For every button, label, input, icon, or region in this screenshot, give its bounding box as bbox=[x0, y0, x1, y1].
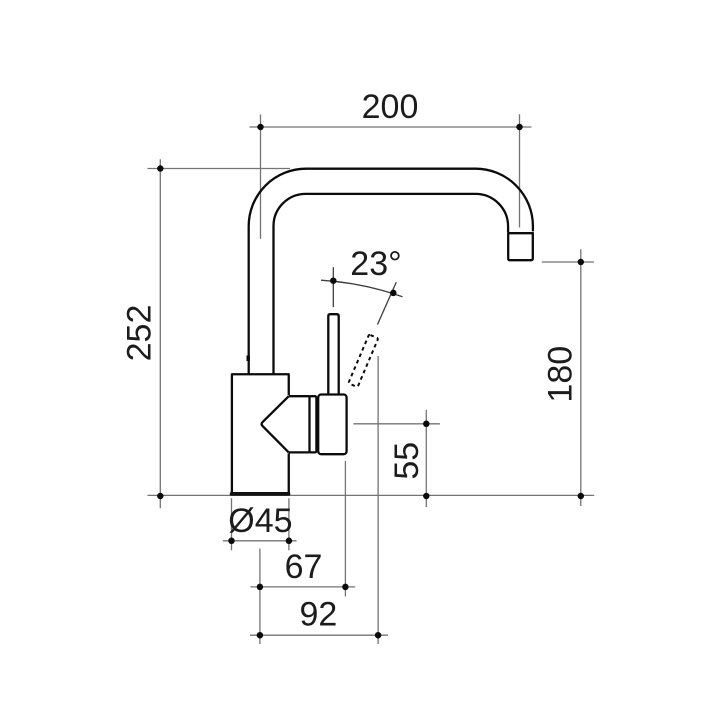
svg-text:180: 180 bbox=[542, 346, 580, 403]
wire: 92 right extension vertical bbox=[377, 356, 379, 644]
node: dia45 left bbox=[228, 538, 235, 545]
wire: 23 degree arc bbox=[321, 280, 403, 297]
node: dia45 right bbox=[286, 538, 293, 545]
wire: 200 left extension vertical bbox=[260, 114, 262, 238]
riser detail mark bbox=[246, 356, 249, 362]
wire: 200 dim line bbox=[249, 126, 531, 128]
svg-text:23°: 23° bbox=[350, 245, 401, 283]
spout inner profile bbox=[274, 194, 509, 374]
wire: baseline extension horizontal bbox=[148, 494, 595, 496]
wire: dia45 dim line bbox=[223, 540, 297, 542]
svg-text:252: 252 bbox=[120, 305, 158, 362]
node: angle vertex right bbox=[390, 290, 397, 297]
handle hub bbox=[318, 395, 346, 455]
handle stick bbox=[328, 314, 338, 394]
wire: dia45 right extension vertical bbox=[288, 498, 290, 550]
node: 252 top bbox=[157, 165, 164, 172]
wire: 180 top extension horizontal bbox=[542, 261, 594, 263]
faucet outline bbox=[232, 169, 534, 493]
wire: 200 right extension vertical bbox=[519, 114, 521, 227]
node: 55 top bbox=[423, 421, 430, 428]
wire: 252 dim line vertical bbox=[159, 159, 161, 508]
wire: 67 dim line bbox=[250, 586, 355, 588]
dimension dots bbox=[157, 124, 584, 639]
svg-text:Ø45: Ø45 bbox=[228, 502, 292, 540]
node: 92 right bbox=[375, 632, 382, 639]
base plate bbox=[230, 492, 290, 496]
node: 180 top bbox=[578, 259, 585, 266]
collar ring bbox=[310, 396, 317, 452]
svg-text:55: 55 bbox=[388, 442, 426, 480]
wire: tilted angle reference bbox=[378, 282, 397, 324]
angle annotation lines bbox=[321, 267, 403, 324]
svg-text:92: 92 bbox=[299, 596, 337, 634]
svg-text:67: 67 bbox=[285, 548, 323, 586]
body cylinder bbox=[232, 374, 289, 492]
wire: 252 top extension horizontal bbox=[148, 168, 291, 170]
node: 252 bottom bbox=[157, 493, 164, 500]
node: 180 bottom bbox=[578, 493, 585, 500]
node: 67 left bbox=[257, 584, 264, 591]
wire: 55 top extension horizontal bbox=[353, 423, 440, 425]
node: angle vertex left bbox=[330, 277, 337, 284]
spout nozzle aerator bbox=[508, 233, 533, 260]
cone bottom horizontal bbox=[289, 451, 310, 453]
wire: 92 dim line bbox=[250, 634, 388, 636]
cone junction upper diagonal bbox=[262, 396, 289, 452]
wire: vertical angle reference bbox=[332, 267, 334, 307]
dashed lever (open position) bbox=[348, 334, 378, 387]
wire: 55 dim line vertical bbox=[425, 410, 427, 507]
wire: dia45 left extension vertical bbox=[231, 498, 233, 550]
spout nozzle joint line bbox=[507, 232, 534, 234]
wire: 180 dim line vertical bbox=[580, 249, 582, 506]
wire: centre axis extension vertical bbox=[259, 549, 261, 645]
spout outer profile bbox=[249, 169, 533, 374]
node: 55 bottom bbox=[423, 493, 430, 500]
node: 67 right bbox=[342, 584, 349, 591]
node: 200 right bbox=[516, 124, 523, 131]
cone top horizontal bbox=[289, 395, 310, 397]
dimension extension lines (grey) bbox=[148, 114, 595, 644]
svg-text:200: 200 bbox=[362, 88, 419, 126]
node: 200 left bbox=[257, 124, 264, 131]
wire: 67 right extension vertical bbox=[344, 461, 346, 597]
node: 92 left bbox=[257, 632, 264, 639]
